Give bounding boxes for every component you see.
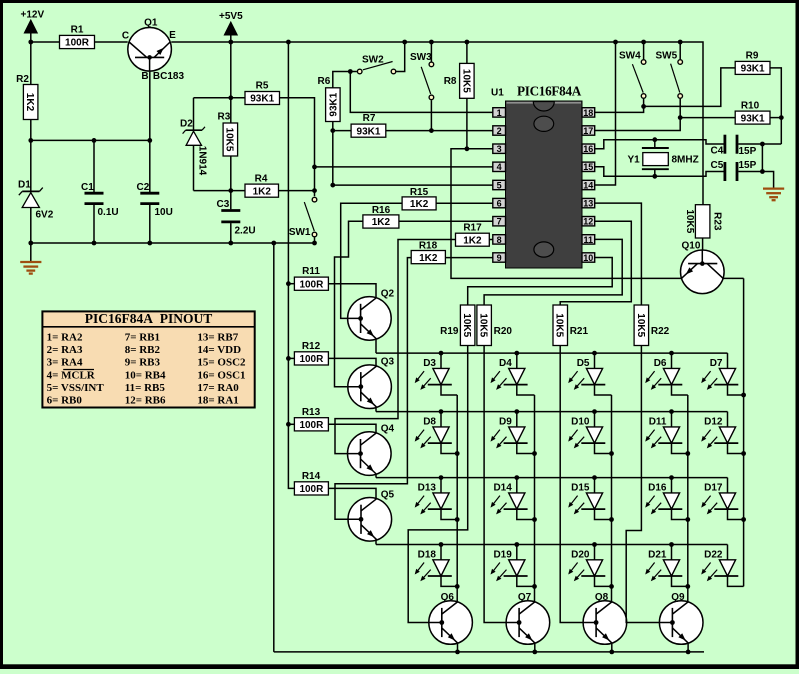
svg-text:10: 10 <box>583 253 593 263</box>
LED D15 <box>568 478 605 515</box>
svg-text:PIC16F84A: PIC16F84A <box>517 84 582 99</box>
wire R16 to pin7 <box>399 220 493 222</box>
LED D3 <box>415 353 452 390</box>
svg-text:R14: R14 <box>302 471 321 482</box>
LED D4 <box>491 353 528 390</box>
svg-text:C3: C3 <box>217 199 230 210</box>
LED D5 <box>568 353 605 390</box>
svg-text:R2: R2 <box>16 74 29 85</box>
switch SW4 <box>619 51 646 99</box>
LED D8 <box>415 412 452 449</box>
wire R14 to collector <box>328 488 376 498</box>
wire R13 to collector <box>328 424 376 433</box>
svg-text:14: 14 <box>583 180 593 190</box>
svg-text:Q9: Q9 <box>671 592 685 603</box>
transistor Q2 <box>348 288 395 340</box>
wire +5V5 column to R3 <box>228 42 233 123</box>
svg-text:6V2: 6V2 <box>36 210 54 221</box>
svg-text:Q7: Q7 <box>518 592 532 603</box>
wire R11 to collector <box>328 284 376 298</box>
svg-text:D4: D4 <box>499 358 512 369</box>
resistor R9 <box>735 51 770 75</box>
crystal Y1 8MHZ <box>628 148 699 169</box>
wire Q6 emitter to ground rail <box>455 643 460 654</box>
svg-text:R15: R15 <box>410 187 429 198</box>
svg-text:E: E <box>169 30 176 41</box>
svg-text:5= VSS/INT: 5= VSS/INT <box>47 382 105 394</box>
wire D19 cathode <box>517 576 535 587</box>
resistor R19 <box>440 305 475 346</box>
wire Q7 emitter to ground rail <box>532 643 537 654</box>
svg-text:R13: R13 <box>302 407 321 418</box>
svg-text:D14: D14 <box>493 483 512 494</box>
LED D14 <box>491 478 528 515</box>
wire R21 to Q8 base <box>560 346 598 625</box>
pin 6 <box>493 198 506 208</box>
svg-text:C4: C4 <box>711 146 724 157</box>
svg-text:R5: R5 <box>256 81 269 92</box>
wire pin10 to R19 <box>468 258 613 306</box>
wire Q3 emitter to LED row 2 <box>375 407 378 412</box>
resistor R23 <box>684 205 723 238</box>
svg-text:4: 4 <box>497 162 502 172</box>
pin 11 <box>582 235 595 245</box>
transistor Q3 <box>348 357 395 409</box>
svg-text:2.2U: 2.2U <box>235 226 256 237</box>
wire pin3 to Q10 emitter line <box>451 149 681 279</box>
zener diode D1 6V2 <box>18 180 54 221</box>
wire D5 cathode <box>595 384 612 395</box>
transistor Q8 <box>583 592 627 644</box>
resistor R3 <box>218 112 238 157</box>
wire R18 to pin9 <box>445 257 492 259</box>
svg-text:D6: D6 <box>654 358 667 369</box>
svg-text:2= RA3: 2= RA3 <box>47 344 83 356</box>
svg-text:100R: 100R <box>65 38 90 49</box>
pin 7 <box>493 217 506 227</box>
node +5V5 supply <box>219 11 243 42</box>
svg-text:13: 13 <box>583 199 593 209</box>
pin 8 <box>493 235 506 245</box>
wire LED row 4 <box>376 542 728 547</box>
svg-text:D18: D18 <box>418 549 437 560</box>
transistor Q6 <box>429 592 473 644</box>
svg-text:8: 8 <box>497 235 502 245</box>
svg-text:15P: 15P <box>739 160 757 171</box>
wire cathode column 1 <box>455 395 460 602</box>
wire R5 to MCLR node <box>280 98 315 167</box>
pin 4 <box>493 162 506 172</box>
svg-text:18= RA1: 18= RA1 <box>197 395 238 407</box>
wire D15 cathode <box>595 509 612 520</box>
wire D3 cathode <box>441 384 457 395</box>
svg-text:R4: R4 <box>255 174 268 185</box>
resistor R6 <box>318 76 341 122</box>
wire LED row 3 <box>376 475 728 480</box>
svg-text:R21: R21 <box>570 326 589 337</box>
svg-text:D21: D21 <box>648 549 667 560</box>
wire D18 cathode <box>441 576 457 587</box>
svg-text:Q3: Q3 <box>381 357 395 368</box>
svg-text:13= RB7: 13= RB7 <box>197 331 238 343</box>
svg-text:R7: R7 <box>363 113 376 124</box>
LED D19 <box>491 545 528 582</box>
wire Q4 emitter to LED row 3 <box>375 474 377 478</box>
resistor R21 <box>553 305 588 346</box>
wire pin11 to R20 <box>484 239 622 305</box>
wire R9/R10 right side <box>770 68 784 144</box>
wire D9 cathode <box>517 443 535 454</box>
capacitor C2 <box>137 140 173 245</box>
wire R17 to Q4 base <box>335 240 456 457</box>
svg-text:R9: R9 <box>746 51 759 62</box>
svg-text:Q6: Q6 <box>441 592 455 603</box>
svg-text:D15: D15 <box>571 483 590 494</box>
wire Q5 emitter to LED row 4 <box>375 540 378 545</box>
svg-text:C: C <box>122 31 129 42</box>
pin 3 <box>493 144 506 154</box>
wire R19 to Q6 base <box>408 346 468 625</box>
svg-text:SW3: SW3 <box>410 52 432 63</box>
svg-text:9: 9 <box>497 253 502 263</box>
svg-text:15P: 15P <box>739 146 757 157</box>
svg-text:2: 2 <box>497 126 502 136</box>
svg-text:100R: 100R <box>299 420 324 431</box>
PIC16F84A pinout table <box>42 311 254 408</box>
svg-text:10K5: 10K5 <box>477 313 488 337</box>
wire SW2 to +5V rail <box>396 42 404 72</box>
ground symbol left <box>20 262 41 274</box>
svg-text:7= RB1: 7= RB1 <box>125 331 160 343</box>
wire pin17 to SW5/R10 node <box>595 115 735 130</box>
svg-text:100R: 100R <box>299 484 324 495</box>
svg-text:PIC16F84A PINOUT: PIC16F84A PINOUT <box>85 311 213 326</box>
wire Q1 base to C2 node <box>149 71 151 140</box>
svg-text:1K2: 1K2 <box>24 93 35 112</box>
svg-text:D2: D2 <box>180 118 193 129</box>
resistor R7 <box>351 113 386 137</box>
wire pin18 to SW4 <box>595 42 646 112</box>
wire D14 cathode <box>517 509 535 520</box>
svg-text:D13: D13 <box>418 483 437 494</box>
pin 2 <box>493 126 506 136</box>
wire R6 top to SW2 <box>333 69 357 88</box>
svg-text:12= RB6: 12= RB6 <box>125 395 166 407</box>
resistor R4 <box>245 174 279 198</box>
wire R22 to Q9 base <box>626 346 675 625</box>
node +12V supply <box>21 10 45 85</box>
wire D17 cathode <box>728 509 744 520</box>
svg-text:R22: R22 <box>651 326 670 337</box>
resistor R2 <box>16 74 38 120</box>
svg-text:D16: D16 <box>648 483 667 494</box>
LED D9 <box>491 412 528 449</box>
LED D16 <box>645 478 682 515</box>
wire pin4 MCLR line <box>315 166 493 168</box>
svg-text:D12: D12 <box>704 417 723 428</box>
wire Q8 emitter to ground rail <box>609 643 614 654</box>
ground symbol right <box>763 189 784 201</box>
svg-text:10K5: 10K5 <box>554 313 565 337</box>
wire R6 bottom to R7/pin5 <box>330 122 351 188</box>
svg-text:R16: R16 <box>372 205 391 216</box>
wire R15 to pin6 <box>436 202 493 204</box>
pin 17 <box>582 126 595 136</box>
wire bus from +5V rail to base resistors <box>286 42 294 488</box>
transistor Q7 <box>506 592 550 644</box>
svg-text:1K2: 1K2 <box>253 186 272 197</box>
svg-text:R17: R17 <box>463 223 482 234</box>
wire D22 cathode <box>728 576 744 587</box>
LED D7 <box>701 353 738 390</box>
resistor R17 <box>456 223 490 247</box>
wire R20 to Q7 base <box>484 346 521 625</box>
pin 18 <box>582 108 595 118</box>
svg-text:10K5: 10K5 <box>461 313 472 337</box>
wire ground rail bottom <box>274 243 704 652</box>
LED D21 <box>645 545 682 582</box>
svg-text:10U: 10U <box>155 207 173 218</box>
capacitor C1 <box>81 140 119 245</box>
resistor R16 <box>363 205 399 228</box>
svg-text:93K1: 93K1 <box>741 113 765 124</box>
svg-text:11: 11 <box>584 235 594 245</box>
svg-text:D22: D22 <box>704 549 723 560</box>
svg-text:D5: D5 <box>577 358 590 369</box>
resistor R15 <box>402 187 436 210</box>
wire D16 cathode <box>672 509 688 520</box>
wire cathode column 2 <box>532 395 537 602</box>
svg-text:Q5: Q5 <box>381 489 395 500</box>
svg-text:0.1U: 0.1U <box>98 207 119 218</box>
capacitor C5 15P <box>711 160 757 181</box>
svg-text:1N914: 1N914 <box>196 146 207 176</box>
wire cathode column 3 <box>609 395 614 602</box>
LED D17 <box>701 478 738 515</box>
svg-text:1K2: 1K2 <box>410 199 429 210</box>
wire pin5 line <box>333 184 493 186</box>
wire pin16 to crystal/C4 <box>595 137 725 148</box>
svg-text:7: 7 <box>497 217 502 227</box>
pin 9 <box>493 253 506 263</box>
wire Q10 collector to LED column 5 <box>723 278 746 586</box>
switch SW3 <box>410 52 434 100</box>
LED D11 <box>645 412 682 449</box>
wire R3 to R4 node <box>194 156 246 209</box>
wire Q2 emitter to LED row 1 <box>375 339 377 353</box>
svg-text:R18: R18 <box>419 241 438 252</box>
wire SW2 junction to pin1 <box>350 72 493 113</box>
svg-text:1= RA2: 1= RA2 <box>47 331 83 343</box>
svg-text:R1: R1 <box>71 25 84 36</box>
resistor R1 <box>60 25 95 49</box>
svg-text:C1: C1 <box>81 182 94 193</box>
svg-text:D9: D9 <box>499 417 512 428</box>
resistor R11 <box>294 266 328 290</box>
svg-text:9= RB3: 9= RB3 <box>125 357 161 369</box>
resistor R14 <box>294 471 328 495</box>
wire pin15 to crystal/C5 <box>595 167 725 179</box>
transistor Q5 <box>348 489 394 541</box>
svg-text:R19: R19 <box>440 326 459 337</box>
svg-text:D8: D8 <box>423 417 436 428</box>
svg-text:B: B <box>141 71 148 82</box>
wire LED row 2 <box>376 409 728 414</box>
svg-text:11= RB5: 11= RB5 <box>125 382 166 394</box>
switch SW5 <box>656 42 683 118</box>
svg-text:8MHZ: 8MHZ <box>672 155 699 166</box>
wire D13 cathode <box>441 509 457 520</box>
resistor R8 <box>444 42 474 151</box>
svg-text:Q2: Q2 <box>381 288 395 299</box>
svg-text:14= VDD: 14= VDD <box>197 344 241 356</box>
LED D20 <box>568 545 605 582</box>
svg-text:1K2: 1K2 <box>419 253 438 264</box>
wire D7 cathode <box>728 384 744 395</box>
transistor Q9 <box>659 592 703 644</box>
svg-text:D11: D11 <box>649 417 667 428</box>
wire R12 to collector <box>328 358 376 366</box>
svg-text:D19: D19 <box>493 549 512 560</box>
svg-text:10K5: 10K5 <box>460 69 471 93</box>
LED D12 <box>701 412 738 449</box>
svg-text:17: 17 <box>583 126 593 136</box>
LED D18 <box>415 545 452 582</box>
pin 13 <box>582 198 595 208</box>
LED D13 <box>415 478 452 515</box>
wire R18 to Q5 base <box>335 258 411 522</box>
wire D10 cathode <box>595 443 612 454</box>
wire R17 to pin8 <box>489 239 493 241</box>
wire D6 cathode <box>672 384 688 395</box>
svg-text:SW1: SW1 <box>289 227 311 238</box>
wire LED row 1 <box>376 351 728 356</box>
svg-text:100R: 100R <box>299 279 324 290</box>
svg-text:Q4: Q4 <box>381 424 395 435</box>
wire D21 cathode <box>672 576 688 587</box>
wire pin14 to +5V rail <box>595 42 616 185</box>
svg-text:10= RB4: 10= RB4 <box>125 369 166 381</box>
resistor R10 <box>735 101 770 125</box>
svg-text:R12: R12 <box>302 341 321 352</box>
pin 10 <box>582 253 595 263</box>
wire R7 to pin2 with SW3 tap <box>386 42 493 133</box>
svg-text:BC183: BC183 <box>153 71 185 82</box>
svg-text:Q8: Q8 <box>595 592 609 603</box>
svg-text:93K1: 93K1 <box>250 94 274 105</box>
svg-text:16= OSC1: 16= OSC1 <box>197 369 245 381</box>
wire node A (Q1 base rail) <box>31 138 152 143</box>
svg-text:D17: D17 <box>704 483 723 494</box>
wire ground line upper-left <box>31 241 317 246</box>
resistor R5 <box>245 81 280 105</box>
svg-text:3= RA4: 3= RA4 <box>47 357 83 369</box>
svg-text:U1: U1 <box>491 88 504 99</box>
wire R4 node to switch SW1 <box>279 165 317 244</box>
svg-text:+12V: +12V <box>21 10 45 21</box>
svg-text:1K2: 1K2 <box>372 217 391 228</box>
svg-text:R11: R11 <box>302 266 320 277</box>
wire C4/C5 right to ground <box>738 142 781 188</box>
switch SW2 <box>357 55 395 74</box>
svg-text:10K5: 10K5 <box>224 128 235 152</box>
svg-text:D3: D3 <box>423 358 436 369</box>
svg-text:R6: R6 <box>318 76 331 87</box>
wire R16 to Q3 base <box>335 221 364 389</box>
svg-text:SW2: SW2 <box>362 55 384 66</box>
svg-text:12: 12 <box>583 217 593 227</box>
diode D2 1N914 <box>180 98 207 191</box>
wire R23 to Q10 <box>702 238 704 250</box>
LED D10 <box>568 412 605 449</box>
svg-text:10K5: 10K5 <box>684 209 695 233</box>
svg-text:6= RB0: 6= RB0 <box>47 395 83 407</box>
wire D2 cathode to R5 <box>194 97 246 99</box>
svg-text:Q1: Q1 <box>144 18 158 29</box>
wire R15 to Q2 base <box>341 203 402 321</box>
svg-text:C5: C5 <box>711 160 724 171</box>
wire D12 cathode <box>728 443 744 454</box>
transistor Q4 <box>348 424 395 476</box>
svg-text:16: 16 <box>583 144 593 154</box>
svg-text:D1: D1 <box>18 180 31 191</box>
transistor Q1 <box>122 18 185 83</box>
wire D20 cathode <box>595 576 612 587</box>
svg-text:3: 3 <box>497 144 502 154</box>
pin 16 <box>582 144 595 154</box>
LED D22 <box>701 545 738 582</box>
svg-text:1: 1 <box>497 108 502 118</box>
svg-text:Y1: Y1 <box>628 155 641 166</box>
wire D4 cathode <box>517 384 535 395</box>
wire Q9 emitter to ground rail <box>686 643 691 654</box>
svg-text:D10: D10 <box>571 417 590 428</box>
wire D8 cathode <box>441 443 457 454</box>
svg-text:R10: R10 <box>741 101 760 112</box>
svg-text:8= RB2: 8= RB2 <box>125 344 161 356</box>
svg-text:D7: D7 <box>710 358 723 369</box>
svg-text:100R: 100R <box>299 354 324 365</box>
wire SW4 node to R9 <box>644 68 736 107</box>
wire cathode column 4 <box>685 395 690 602</box>
svg-text:5: 5 <box>497 180 502 190</box>
pin 14 <box>582 180 595 190</box>
svg-text:15= OSC2: 15= OSC2 <box>197 357 246 369</box>
LED D6 <box>645 353 682 390</box>
svg-text:15: 15 <box>583 162 593 172</box>
svg-text:R23: R23 <box>712 212 723 231</box>
svg-text:SW5: SW5 <box>656 51 678 62</box>
resistor R20 <box>477 305 512 346</box>
svg-text:D20: D20 <box>571 549 590 560</box>
svg-text:6: 6 <box>497 199 502 209</box>
IC U1 PIC16F84A <box>491 84 582 269</box>
svg-text:93K1: 93K1 <box>357 126 381 137</box>
svg-text:1K2: 1K2 <box>463 235 482 246</box>
svg-text:93K1: 93K1 <box>328 92 339 116</box>
wire +5V rail <box>31 40 703 205</box>
capacitor C3 <box>217 199 256 243</box>
svg-text:4= MCLR: 4= MCLR <box>47 369 96 381</box>
resistor R22 <box>634 305 670 346</box>
svg-text:93K1: 93K1 <box>741 64 765 75</box>
capacitor C4 15P <box>711 135 757 157</box>
svg-text:Q10: Q10 <box>682 241 701 252</box>
pin 15 <box>582 162 595 172</box>
resistor R18 <box>411 241 445 264</box>
svg-text:+5V5: +5V5 <box>219 11 243 22</box>
svg-text:R20: R20 <box>494 326 513 337</box>
